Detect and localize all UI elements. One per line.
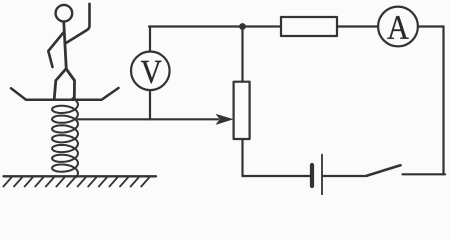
- spring: [52, 98, 78, 177]
- ground hatching: [3, 178, 149, 187]
- slider arrowhead: [216, 114, 234, 125]
- voltmeter label V: [141, 61, 162, 83]
- battery negative plate (short thick): [310, 165, 314, 186]
- potentiometer body: [234, 82, 250, 139]
- wire potentiometer to bottom rail: [241, 139, 243, 176]
- right rail wire: [442, 27, 444, 175]
- platform pan: [11, 88, 119, 100]
- wire switch contact to right rail: [403, 173, 446, 175]
- voltmeter U-V circle: [131, 52, 170, 91]
- person left arm: [48, 33, 63, 68]
- ammeter A circle: [378, 7, 418, 47]
- person torso: [64, 22, 67, 69]
- slider wire from spring: [78, 118, 218, 120]
- person left leg: [54, 69, 66, 100]
- switch lever: [367, 165, 401, 175]
- bottom rail wire: [243, 175, 311, 177]
- top rail wire: [149, 25, 281, 27]
- wire junction to potentiometer top: [241, 27, 243, 82]
- battery positive plate (long thin): [321, 155, 323, 196]
- voltmeter top lead wire: [149, 27, 151, 52]
- ground line: [4, 175, 157, 177]
- person right leg: [66, 69, 74, 100]
- wire battery to switch pivot: [323, 175, 367, 177]
- junction node dot: [239, 23, 246, 30]
- voltmeter bottom lead wire: [149, 90, 151, 119]
- wire ammeter to right corner: [418, 25, 444, 27]
- resistor R: [281, 17, 337, 36]
- person head: [56, 5, 73, 22]
- ammeter label A: [387, 16, 408, 39]
- person raised right arm: [66, 4, 90, 43]
- wire resistor to ammeter: [337, 25, 378, 27]
